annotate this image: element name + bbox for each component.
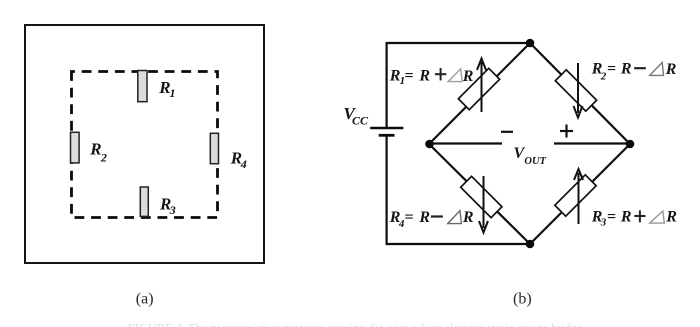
resistor R2 (left) xyxy=(71,132,80,163)
label R1 = R + dR xyxy=(389,67,474,87)
svg-text:3: 3 xyxy=(600,217,607,229)
delta triangle for R1 label xyxy=(448,69,462,82)
resistor R3 (bottom) xyxy=(140,187,148,216)
svg-text:R: R xyxy=(620,208,632,225)
svg-text:(b): (b) xyxy=(513,291,532,308)
strain gauge R1 arrow (up) xyxy=(481,62,483,112)
sensor die outer square xyxy=(25,25,264,263)
svg-text:(a): (a) xyxy=(136,291,154,308)
svg-text:=: = xyxy=(404,209,413,226)
svg-text:FIGURE 4. The piezoresistive p: FIGURE 4. The piezoresistive pressure se… xyxy=(128,321,586,327)
minus sign of Vout xyxy=(501,131,513,133)
svg-text:R: R xyxy=(665,61,677,78)
resistor R1 (top) xyxy=(138,71,147,102)
plus sign in R1 label xyxy=(435,73,446,75)
svg-text:OUT: OUT xyxy=(524,156,546,167)
svg-text:R: R xyxy=(462,68,474,85)
wire: Vout right segment xyxy=(554,142,630,144)
battery long plate xyxy=(370,127,403,130)
delta triangle for R2 label xyxy=(650,62,664,75)
svg-text:4: 4 xyxy=(240,157,247,171)
battery short plate xyxy=(379,134,395,137)
bridge edge bottom-left xyxy=(429,144,530,244)
svg-text:3: 3 xyxy=(169,203,176,217)
node top xyxy=(526,39,535,48)
strain gauge R3 arrow (up) xyxy=(578,173,580,224)
strain gauge R3 body (bottom-right) xyxy=(555,175,596,216)
svg-text:2: 2 xyxy=(600,70,607,82)
wire: top rail xyxy=(386,42,531,44)
strain gauge R4 body (bottom-left) xyxy=(461,176,502,217)
dashed diaphragm square xyxy=(72,72,218,218)
strain gauge R2 body (top-right) xyxy=(555,70,596,111)
minus sign in R4 label xyxy=(431,215,443,217)
svg-text:CC: CC xyxy=(352,114,369,128)
label R4 = R - dR xyxy=(389,209,474,230)
svg-text:1: 1 xyxy=(170,86,176,100)
strain gauge R4 arrow (down) xyxy=(483,176,485,228)
delta triangle for R3 label xyxy=(650,211,665,223)
label R2 = R - dR xyxy=(591,61,677,83)
bridge edge top-left xyxy=(429,43,530,144)
bridge edge top-right xyxy=(530,43,630,144)
node bottom xyxy=(526,240,535,249)
svg-text:=: = xyxy=(404,67,413,84)
bridge edge bottom-right xyxy=(530,144,630,244)
wire: left rail lower xyxy=(386,137,388,246)
svg-text:R: R xyxy=(418,67,430,84)
label R3 = R + dR xyxy=(591,208,678,228)
resistor R4 (right) xyxy=(210,133,218,163)
svg-text:R: R xyxy=(462,209,474,226)
svg-text:=: = xyxy=(607,208,616,225)
node right xyxy=(626,140,635,149)
wire: Vout left segment xyxy=(429,142,502,144)
minus sign in R2 label xyxy=(634,67,646,69)
svg-text:R: R xyxy=(89,139,101,158)
plus sign in R3 label xyxy=(634,215,645,217)
node left xyxy=(425,140,434,149)
plus sign of Vout xyxy=(560,130,573,132)
svg-text:R: R xyxy=(620,61,632,78)
svg-text:R: R xyxy=(418,209,430,226)
svg-text:=: = xyxy=(607,61,616,78)
wire: left rail upper xyxy=(386,42,388,127)
svg-text:R: R xyxy=(665,208,677,225)
wire: bottom rail xyxy=(386,243,531,245)
strain gauge R2 arrow (down) xyxy=(577,63,579,113)
strain gauge R1 body (top-left) xyxy=(458,68,499,109)
delta triangle for R4 label xyxy=(448,211,462,224)
svg-text:2: 2 xyxy=(100,150,107,164)
